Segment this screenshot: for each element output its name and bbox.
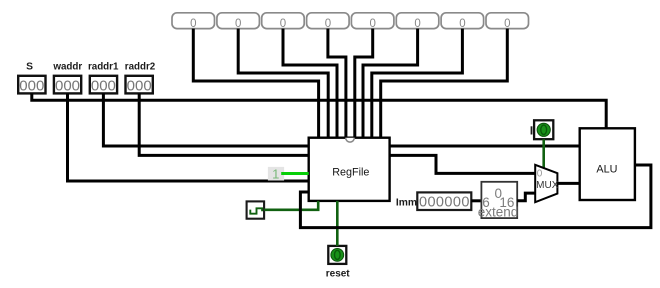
wire RegFile outB to MUX <box>390 155 536 173</box>
svg-text:ALU: ALU <box>596 164 617 176</box>
wire constant 1 to RegFile <box>281 172 309 175</box>
svg-text:MUX: MUX <box>536 180 559 191</box>
wire RegFile outA to ALU <box>390 145 580 148</box>
wire O1 to RegFile pin1 <box>193 29 318 138</box>
wire S to ALU select <box>32 93 606 128</box>
wire raddr2 to RegFile <box>139 93 309 155</box>
wire clock to RegFile <box>264 201 318 210</box>
wire MUX to ALU <box>557 182 579 185</box>
multiplexer MUX <box>535 165 559 202</box>
wire Imm to extender <box>471 199 481 202</box>
input pin Imm <box>396 192 471 210</box>
input pin S <box>18 62 45 95</box>
wire O8 to RegFile pin8 <box>381 29 508 138</box>
svg-text:000: 000 <box>19 78 44 95</box>
wire O2 to RegFile pin2 <box>238 29 328 138</box>
svg-text:000: 000 <box>91 78 116 95</box>
svg-text:S: S <box>26 62 33 73</box>
svg-text:0: 0 <box>414 18 420 30</box>
svg-text:extend: extend <box>478 205 519 220</box>
svg-text:1: 1 <box>272 166 279 181</box>
wire O5 to RegFile pin5 <box>355 29 373 138</box>
wire O3 to RegFile pin3 <box>283 29 337 138</box>
svg-text:0: 0 <box>280 18 286 30</box>
output pin O4 <box>307 13 350 30</box>
output pin O3 <box>262 13 305 30</box>
svg-text:0: 0 <box>190 18 196 30</box>
input pin reset <box>326 246 351 280</box>
wire extender to MUX <box>517 193 535 201</box>
input pin waddr <box>52 62 82 95</box>
wire waddr to RegFile <box>68 93 310 181</box>
svg-text:Imm: Imm <box>396 197 417 208</box>
svg-text:0: 0 <box>235 18 241 30</box>
svg-text:RegFile: RegFile <box>332 167 369 179</box>
svg-text:000: 000 <box>127 78 152 95</box>
input pin raddr2 <box>125 62 156 95</box>
wire raddr1 to RegFile <box>103 93 309 146</box>
wire O4 to RegFile pin4 <box>328 29 346 138</box>
output pin O8 <box>486 13 529 30</box>
wire reset to RegFile <box>336 201 339 246</box>
wire ALU result feedback to RegFile write data <box>300 165 651 228</box>
output pin O6 <box>396 13 439 30</box>
svg-text:0: 0 <box>325 18 331 30</box>
wire O7 to RegFile pin7 <box>372 29 463 138</box>
svg-text:raddr2: raddr2 <box>125 62 156 73</box>
svg-text:000: 000 <box>55 78 80 95</box>
svg-text:waddr: waddr <box>52 62 82 73</box>
svg-text:000000: 000000 <box>419 195 470 211</box>
input pin I <box>531 120 554 139</box>
clock CLK <box>247 201 265 218</box>
wire O6 to RegFile pin6 <box>363 29 418 138</box>
constant 1 <box>268 166 284 181</box>
bit extender <box>478 182 519 220</box>
svg-text:0: 0 <box>369 18 375 30</box>
subcircuit RegFile <box>309 138 390 201</box>
svg-text:0: 0 <box>459 18 465 30</box>
output pin O7 <box>441 13 484 30</box>
subcircuit ALU <box>580 128 635 200</box>
input pin raddr1 <box>88 62 119 95</box>
svg-text:0: 0 <box>537 169 543 180</box>
svg-text:0: 0 <box>504 18 510 30</box>
svg-text:reset: reset <box>326 269 351 280</box>
svg-text:raddr1: raddr1 <box>88 62 119 73</box>
wire I to MUX select <box>542 139 545 168</box>
output pin O5 <box>351 13 394 30</box>
output pin O2 <box>217 13 260 30</box>
output pin O1 <box>172 13 215 30</box>
